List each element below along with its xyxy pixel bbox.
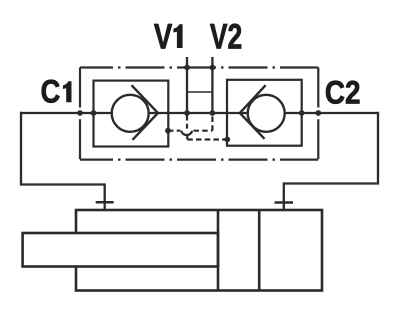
svg-text:V: V bbox=[154, 16, 172, 56]
svg-text:V2: V2 bbox=[210, 17, 242, 57]
svg-text:C2: C2 bbox=[325, 76, 361, 111]
svg-text:C: C bbox=[41, 74, 61, 110]
